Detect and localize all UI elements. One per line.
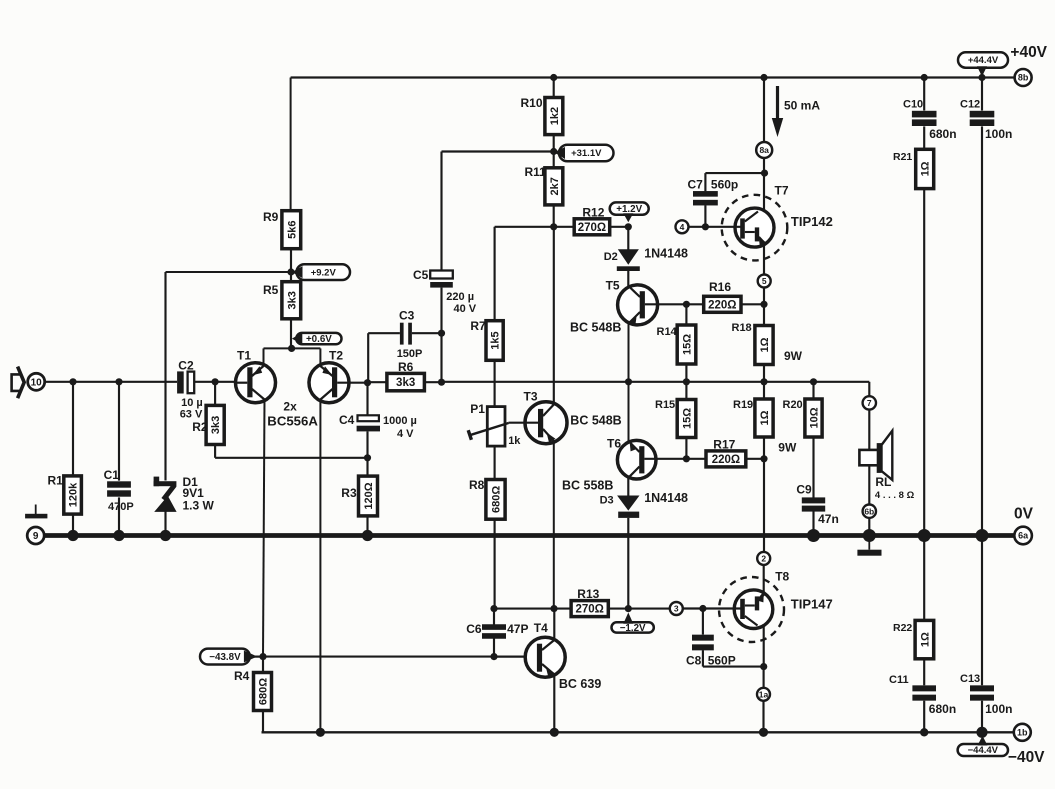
svg-text:R14: R14 bbox=[657, 326, 678, 338]
svg-text:+40V: +40V bbox=[1010, 44, 1047, 61]
svg-text:BC 548B: BC 548B bbox=[570, 414, 621, 428]
svg-text:RL: RL bbox=[875, 475, 891, 489]
svg-text:C10: C10 bbox=[903, 99, 923, 111]
svg-text:R21: R21 bbox=[893, 151, 912, 163]
svg-text:4: 4 bbox=[680, 222, 685, 232]
svg-text:560p: 560p bbox=[711, 178, 738, 192]
svg-text:C9: C9 bbox=[796, 483, 812, 497]
svg-text:470P: 470P bbox=[108, 501, 134, 513]
svg-text:220 µ: 220 µ bbox=[446, 291, 474, 303]
svg-text:R2: R2 bbox=[192, 420, 208, 434]
svg-text:680n: 680n bbox=[929, 702, 956, 716]
svg-text:100n: 100n bbox=[985, 127, 1012, 141]
svg-text:C5: C5 bbox=[413, 268, 429, 282]
svg-text:680Ω: 680Ω bbox=[490, 486, 502, 513]
svg-text:150P: 150P bbox=[397, 348, 423, 360]
svg-text:BC 548B: BC 548B bbox=[570, 321, 621, 335]
svg-text:6a: 6a bbox=[1018, 531, 1029, 541]
svg-text:R20: R20 bbox=[783, 399, 803, 411]
svg-text:1a: 1a bbox=[759, 689, 769, 699]
svg-text:C7: C7 bbox=[688, 178, 704, 192]
svg-text:C8: C8 bbox=[686, 654, 702, 668]
svg-text:T7: T7 bbox=[775, 184, 789, 198]
svg-text:1Ω: 1Ω bbox=[759, 410, 771, 425]
svg-text:10: 10 bbox=[31, 377, 43, 388]
svg-text:D2: D2 bbox=[604, 251, 618, 263]
svg-text:R11: R11 bbox=[525, 165, 547, 179]
svg-text:1k: 1k bbox=[508, 435, 521, 447]
svg-text:R9: R9 bbox=[263, 210, 279, 224]
svg-text:T1: T1 bbox=[237, 349, 251, 363]
svg-text:220Ω: 220Ω bbox=[712, 454, 740, 466]
svg-text:TIP142: TIP142 bbox=[791, 214, 833, 229]
svg-text:270Ω: 270Ω bbox=[575, 604, 603, 616]
svg-text:BC 639: BC 639 bbox=[559, 677, 601, 691]
svg-text:C3: C3 bbox=[399, 309, 415, 323]
svg-text:2k7: 2k7 bbox=[549, 177, 561, 195]
svg-text:1000 µ: 1000 µ bbox=[383, 415, 417, 427]
svg-text:1.3 W: 1.3 W bbox=[183, 499, 215, 513]
svg-text:680n: 680n bbox=[929, 127, 956, 141]
svg-text:9W: 9W bbox=[778, 441, 797, 455]
svg-text:R13: R13 bbox=[577, 587, 599, 601]
svg-text:+0.6V: +0.6V bbox=[306, 334, 332, 345]
svg-text:1N4148: 1N4148 bbox=[644, 491, 688, 505]
svg-text:R12: R12 bbox=[582, 206, 604, 220]
svg-text:120k: 120k bbox=[68, 482, 80, 507]
svg-text:R10: R10 bbox=[521, 96, 543, 110]
svg-text:R4: R4 bbox=[234, 669, 250, 683]
svg-text:5: 5 bbox=[762, 276, 767, 286]
svg-text:P1: P1 bbox=[470, 402, 485, 416]
svg-text:R17: R17 bbox=[713, 438, 735, 452]
svg-text:T6: T6 bbox=[607, 437, 621, 451]
svg-text:+31.1V: +31.1V bbox=[571, 148, 602, 159]
svg-text:T2: T2 bbox=[329, 349, 343, 363]
svg-text:9W: 9W bbox=[784, 349, 803, 363]
svg-text:15Ω: 15Ω bbox=[681, 408, 693, 429]
svg-text:T4: T4 bbox=[534, 621, 548, 635]
svg-text:C11: C11 bbox=[889, 674, 909, 686]
svg-text:1k2: 1k2 bbox=[549, 107, 561, 125]
svg-text:R8: R8 bbox=[469, 478, 485, 492]
svg-text:T5: T5 bbox=[606, 279, 620, 293]
svg-text:220Ω: 220Ω bbox=[708, 299, 736, 311]
svg-text:C4: C4 bbox=[339, 413, 355, 427]
svg-text:47P: 47P bbox=[507, 622, 528, 636]
svg-text:+44.4V: +44.4V bbox=[968, 55, 999, 66]
svg-text:R1: R1 bbox=[48, 474, 64, 488]
svg-text:0V: 0V bbox=[1014, 506, 1034, 523]
svg-text:D3: D3 bbox=[600, 495, 614, 507]
svg-text:−40V: −40V bbox=[1008, 749, 1045, 766]
svg-text:680Ω: 680Ω bbox=[257, 678, 269, 705]
svg-text:4 V: 4 V bbox=[397, 428, 414, 440]
svg-text:120Ω: 120Ω bbox=[363, 482, 375, 509]
svg-text:270Ω: 270Ω bbox=[578, 222, 606, 234]
svg-text:2: 2 bbox=[761, 553, 766, 563]
svg-text:C1: C1 bbox=[104, 468, 120, 482]
svg-text:100n: 100n bbox=[985, 702, 1012, 716]
svg-text:+1.2V: +1.2V bbox=[616, 204, 642, 215]
svg-text:T8: T8 bbox=[775, 570, 789, 584]
svg-text:−44.4V: −44.4V bbox=[968, 745, 999, 756]
svg-text:3: 3 bbox=[674, 604, 679, 614]
svg-text:2x: 2x bbox=[283, 400, 297, 414]
svg-text:7: 7 bbox=[867, 398, 872, 408]
svg-text:C2: C2 bbox=[178, 358, 194, 372]
svg-text:R3: R3 bbox=[341, 486, 357, 500]
svg-text:8a: 8a bbox=[759, 145, 769, 155]
svg-text:3k3: 3k3 bbox=[396, 377, 415, 389]
svg-text:560P: 560P bbox=[708, 654, 736, 668]
svg-text:R16: R16 bbox=[709, 280, 731, 294]
svg-text:1N4148: 1N4148 bbox=[644, 247, 688, 261]
svg-text:−1.2V: −1.2V bbox=[620, 623, 646, 634]
svg-text:63 V: 63 V bbox=[180, 409, 203, 421]
svg-text:−43.8V: −43.8V bbox=[209, 652, 241, 663]
svg-text:5k6: 5k6 bbox=[286, 221, 298, 239]
svg-text:R15: R15 bbox=[655, 399, 675, 411]
svg-text:1Ω: 1Ω bbox=[919, 632, 931, 647]
svg-text:T3: T3 bbox=[524, 390, 538, 404]
svg-text:+9.2V: +9.2V bbox=[311, 267, 337, 278]
svg-text:9: 9 bbox=[33, 531, 39, 542]
svg-text:BC556A: BC556A bbox=[267, 414, 318, 429]
svg-text:C12: C12 bbox=[960, 99, 980, 111]
svg-text:1Ω: 1Ω bbox=[759, 337, 771, 352]
svg-text:8b: 8b bbox=[1018, 73, 1029, 83]
svg-text:TIP147: TIP147 bbox=[791, 597, 833, 612]
svg-text:R7: R7 bbox=[470, 319, 486, 333]
svg-text:10 µ: 10 µ bbox=[181, 397, 203, 409]
svg-text:R18: R18 bbox=[732, 322, 752, 334]
svg-text:BC 558B: BC 558B bbox=[562, 479, 613, 493]
svg-text:3k3: 3k3 bbox=[286, 291, 298, 309]
svg-text:50 mA: 50 mA bbox=[784, 99, 820, 113]
svg-text:R6: R6 bbox=[398, 360, 414, 374]
svg-text:1k5: 1k5 bbox=[490, 331, 502, 349]
svg-text:3k3: 3k3 bbox=[210, 416, 222, 434]
svg-text:6b: 6b bbox=[864, 506, 874, 516]
svg-text:R5: R5 bbox=[263, 283, 279, 297]
svg-text:C6: C6 bbox=[466, 622, 482, 636]
svg-text:10Ω: 10Ω bbox=[808, 407, 820, 428]
svg-text:R22: R22 bbox=[893, 622, 912, 634]
svg-text:1b: 1b bbox=[1017, 728, 1028, 738]
svg-text:1Ω: 1Ω bbox=[920, 161, 932, 176]
svg-text:40 V: 40 V bbox=[454, 303, 477, 315]
svg-text:47n: 47n bbox=[818, 512, 839, 526]
svg-text:15Ω: 15Ω bbox=[681, 334, 693, 355]
svg-text:C13: C13 bbox=[960, 673, 980, 685]
svg-text:4 . . . 8 Ω: 4 . . . 8 Ω bbox=[875, 490, 915, 501]
svg-text:R19: R19 bbox=[733, 399, 753, 411]
